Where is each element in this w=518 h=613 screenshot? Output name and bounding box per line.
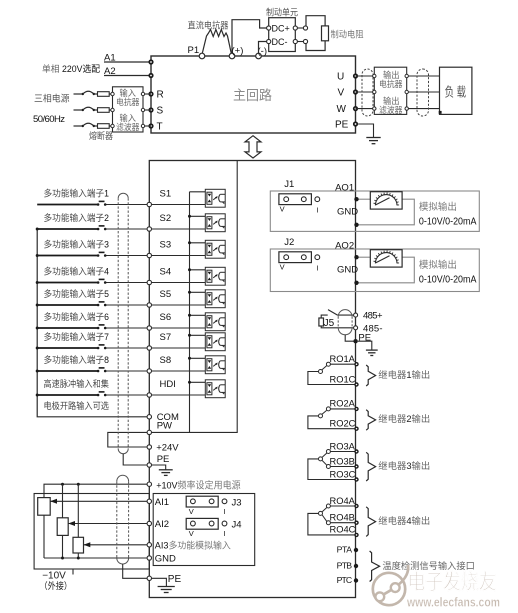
switch SW4 (97, 281, 100, 284)
jumper J4 (186, 518, 218, 529)
svg-text:50/60Hz: 50/60Hz (33, 114, 65, 125)
terminal S6 (147, 326, 151, 330)
relay RO3 common wire (308, 459, 357, 480)
junction on common bus row 2 (36, 228, 39, 231)
wire A2 (104, 75, 151, 77)
wire AO to meter and GND loop (357, 198, 371, 200)
svg-text:PTC: PTC (337, 575, 353, 585)
svg-text:0-10V/0-20mA: 0-10V/0-20mA (419, 275, 477, 286)
wire AI2 with wiper arrow (68, 523, 147, 525)
svg-text:V: V (189, 507, 194, 516)
svg-text:模拟输出: 模拟输出 (419, 201, 457, 213)
terminal RO4C (354, 533, 358, 537)
terminal S7 (147, 346, 151, 350)
optocoupler U3 (205, 240, 225, 258)
bus branch to opto 4 (190, 269, 208, 271)
svg-text:A1: A1 (104, 53, 116, 64)
switch SW3 (97, 254, 100, 257)
shield oval 485 (338, 310, 352, 335)
ground bottom PE (158, 587, 175, 593)
svg-text:继电器2输出: 继电器2输出 (378, 413, 430, 424)
svg-text:GND: GND (337, 265, 358, 276)
svg-text:RO1C: RO1C (330, 374, 356, 384)
wire (-) to DC- (259, 42, 267, 54)
wire S8 to optocoupler (152, 370, 208, 372)
svg-text:多功能输入端子3: 多功能输入端子3 (44, 239, 110, 250)
junction on common bus row 3 (36, 254, 39, 257)
jumper J3 (186, 496, 218, 507)
svg-text:PE: PE (168, 574, 182, 585)
svg-text:HDI: HDI (160, 379, 176, 390)
terminal R (148, 91, 153, 96)
ground control PE (159, 470, 173, 476)
svg-text:R: R (157, 90, 164, 101)
svg-text:S8: S8 (160, 355, 172, 366)
svg-text:熔断器: 熔断器 (89, 130, 114, 141)
bus branch to opto 8 (190, 357, 208, 359)
junction on common bus row 9 (36, 394, 39, 397)
svg-text:V: V (338, 88, 345, 99)
GND bus wire (44, 557, 147, 559)
wire AI1 with wiper arrow (50, 500, 147, 502)
svg-text:T: T (157, 122, 163, 133)
svg-text:AO1: AO1 (335, 182, 354, 193)
node load corner (439, 111, 442, 114)
junction on common bus row 6 (36, 327, 39, 330)
coupling double arrow (245, 136, 261, 158)
terminal A1 (148, 59, 153, 64)
svg-text:RO1A: RO1A (330, 354, 356, 364)
terminal S2 (147, 227, 151, 231)
node PE 485 (353, 339, 357, 343)
switch SW8 (97, 370, 100, 373)
wire S4 to optocoupler (152, 282, 208, 284)
svg-text:PW: PW (157, 421, 172, 432)
svg-text:0-10V/0-20mA: 0-10V/0-20mA (419, 217, 477, 228)
svg-text:J5: J5 (324, 318, 335, 329)
svg-text:负 载: 负 载 (445, 85, 467, 100)
svg-text:J3: J3 (232, 497, 242, 508)
phase line S with breaker and fuse F2 (74, 107, 113, 112)
terminal RO4B (354, 521, 358, 525)
wire V to load (356, 91, 440, 93)
terminal W (353, 106, 358, 111)
svg-text:W: W (337, 104, 347, 115)
relay RO4 common wire (308, 513, 357, 535)
485 shield drain to PE (345, 335, 355, 342)
terminal PE control (147, 463, 151, 467)
svg-text:485+: 485+ (363, 311, 383, 322)
svg-text:多功能输入端子5: 多功能输入端子5 (44, 288, 110, 299)
wire A1 (104, 61, 151, 63)
svg-text:多功能输入端子7: 多功能输入端子7 (44, 331, 110, 342)
svg-text:多功能输入端子4: 多功能输入端子4 (44, 266, 110, 277)
svg-text:AI3多功能模拟输入: AI3多功能模拟输入 (155, 540, 231, 552)
terminal RO4A (354, 504, 358, 508)
svg-text:S6: S6 (160, 312, 172, 323)
wire HDI to optocoupler (152, 394, 208, 396)
svg-text:V: V (189, 529, 194, 538)
svg-text:S7: S7 (160, 332, 172, 343)
terminal RO1A (354, 362, 358, 366)
wire switch segment S1 (37, 204, 98, 206)
svg-text:DC+: DC+ (272, 24, 290, 34)
terminal S8 (147, 369, 151, 373)
svg-text:I: I (316, 205, 318, 214)
output box pins (373, 74, 376, 77)
svg-text:S3: S3 (160, 239, 172, 250)
wire S5 to optocoupler (152, 304, 208, 306)
terminal +24V (147, 445, 151, 449)
bus branch to opto 3 (190, 242, 208, 244)
svg-text:（外接）: （外接） (40, 580, 73, 591)
pin DC- (267, 39, 271, 43)
node AO1 (354, 197, 358, 201)
terminal RO3A (354, 449, 358, 453)
svg-text:单相 220V选配: 单相 220V选配 (42, 63, 100, 74)
svg-text:RO4B: RO4B (330, 513, 355, 523)
shield oval digital inputs (118, 193, 128, 454)
wire S2 to optocoupler (152, 228, 208, 230)
terminal 485- (354, 326, 358, 330)
terminal S (148, 107, 153, 112)
control box (149, 161, 355, 598)
terminal RO2C (354, 427, 358, 431)
digital input inner box (150, 161, 237, 432)
analog output box AO1 (270, 191, 479, 231)
wire PE to ground (152, 465, 166, 470)
wire W to load (356, 108, 440, 110)
terminal PE bottom (147, 576, 151, 580)
svg-text:GND: GND (155, 554, 176, 565)
watermark logo elecfans (373, 565, 408, 605)
wire switch segment S7 (37, 347, 98, 349)
svg-text:I: I (224, 507, 226, 516)
relay RO4 contacts (330, 505, 356, 507)
wire (+) to DC+ (232, 20, 267, 54)
svg-text:V: V (280, 263, 285, 272)
terminal RO2A (354, 407, 358, 411)
svg-text:PE: PE (335, 120, 349, 131)
svg-text:AI2: AI2 (155, 519, 169, 530)
svg-text:RO2A: RO2A (330, 399, 356, 409)
jumper J2 (279, 252, 312, 263)
relay RO3 contacts (330, 451, 356, 453)
optocoupler U2 (205, 214, 225, 232)
potentiometer outer box (34, 494, 149, 570)
shielded cable oval output 1 (362, 69, 373, 116)
svg-text:RO4C: RO4C (330, 525, 356, 535)
svg-text:PTB: PTB (337, 561, 353, 571)
terminal GND (147, 556, 151, 560)
svg-text:−10V: −10V (42, 571, 66, 582)
node GND AO2 (354, 281, 358, 285)
svg-text:RO3C: RO3C (330, 469, 356, 479)
svg-text:RO4A: RO4A (330, 496, 356, 506)
wire loop to braking resistor (306, 16, 325, 26)
terminal 485+ (354, 313, 358, 317)
switch J5 blade (328, 310, 338, 316)
terminal S4 (147, 280, 151, 284)
-10V stub (72, 569, 74, 575)
svg-text:RO2C: RO2C (330, 419, 356, 429)
svg-text:电抗器: 电抗器 (379, 78, 403, 89)
terminal RO3C (354, 477, 358, 481)
analog shield drain to PE (123, 564, 147, 578)
shield drain to PE (123, 454, 147, 465)
node GND AO1 (354, 223, 358, 227)
switch SW1 (97, 203, 100, 206)
analog output box AO2 (270, 249, 479, 292)
digital common bus (37, 229, 149, 417)
wire U to load (356, 75, 440, 77)
terminal +10V (147, 482, 151, 486)
shielded cable oval output 2 (417, 69, 429, 116)
opto anode bus (189, 192, 191, 433)
svg-text:PTA: PTA (337, 545, 353, 555)
wire switch segment S8 (37, 370, 98, 372)
svg-text:J1: J1 (284, 179, 294, 190)
svg-text:AI1: AI1 (155, 497, 169, 508)
optocoupler U6 (205, 313, 225, 331)
svg-text:J4: J4 (232, 520, 242, 531)
svg-text:A2: A2 (104, 66, 116, 77)
RP1 bottom riser (43, 515, 45, 558)
relay RO2 common wire (308, 416, 357, 429)
terminating resistor J5 (319, 318, 324, 326)
braking resistor R-BR (322, 26, 329, 41)
terminal COM (147, 415, 151, 419)
svg-text:J2: J2 (284, 237, 294, 248)
optocoupler U9 (205, 380, 225, 398)
wire switch segment S6 (37, 327, 98, 329)
svg-text:S1: S1 (160, 188, 172, 199)
wire switch segment S2 (37, 228, 98, 230)
meter M2 (370, 250, 402, 267)
switch SW9 (97, 394, 100, 397)
terminal P1 (199, 53, 205, 59)
svg-text:多功能输入端子1: 多功能输入端子1 (44, 188, 110, 199)
terminal AI2 (147, 521, 151, 525)
wire S3 to optocoupler (152, 255, 208, 257)
pin DC+ (267, 26, 271, 30)
switch SW6 (97, 327, 100, 330)
svg-text:继电器4输出: 继电器4输出 (378, 515, 430, 526)
terminal S3 (147, 253, 151, 257)
filter box pins left (111, 92, 114, 95)
terminal PTA (354, 548, 358, 552)
svg-text:U: U (337, 72, 344, 83)
connector wires to resistor plug (297, 27, 303, 29)
brace relay RO2 (366, 410, 375, 431)
wire AO to meter and GND loop (357, 256, 371, 258)
svg-text:I: I (224, 529, 226, 538)
bus branch to opto 2 (190, 215, 208, 217)
svg-text:I: I (316, 263, 318, 272)
svg-text:S: S (157, 106, 164, 117)
junction on common bus row 8 (36, 370, 39, 373)
svg-text:继电器1输出: 继电器1输出 (378, 369, 430, 380)
svg-text:高速脉冲输入和集: 高速脉冲输入和集 (44, 378, 110, 389)
wire PE to ground (152, 578, 167, 586)
meter M1 (370, 192, 402, 209)
wire S1 to optocoupler (152, 204, 208, 206)
optocoupler U8 (205, 356, 225, 374)
svg-text:滤波器: 滤波器 (116, 121, 140, 132)
svg-text:主回路: 主回路 (233, 88, 272, 103)
terminal T (148, 123, 153, 128)
+10V feed wire (44, 484, 147, 497)
svg-text:(+): (+) (232, 46, 244, 57)
analog input inner box (153, 494, 255, 566)
wire PE to ground (358, 124, 373, 138)
terminal A2 (148, 73, 153, 78)
potentiometer RP2 (62, 484, 64, 518)
terminal S5 (147, 303, 151, 307)
terminal (+) (229, 53, 235, 59)
relay RO2 contacts (330, 408, 356, 410)
bus branch to opto 9 (190, 381, 208, 383)
bus branch to opto 1 (190, 191, 208, 193)
wire switch segment S5 (37, 304, 98, 306)
junction on common bus row 7 (36, 347, 39, 350)
wire S6 to optocoupler (152, 327, 208, 329)
terminal PTB (354, 564, 358, 568)
svg-text:制动单元: 制动单元 (266, 7, 298, 18)
switch SW2 (97, 228, 100, 231)
relay RO1 common wire (308, 372, 357, 385)
switch SW7 (97, 347, 100, 350)
svg-text:制动电阻: 制动电阻 (331, 29, 364, 40)
ground (output PE) (366, 138, 380, 144)
svg-text:P1: P1 (188, 45, 200, 56)
svg-text:S2: S2 (160, 213, 172, 224)
wire switch segment S4 (37, 282, 98, 284)
svg-text:V: V (280, 205, 285, 214)
svg-text:模拟输出: 模拟输出 (419, 259, 457, 271)
output reactor/filter box (374, 67, 406, 114)
svg-text:www.elecfans.com: www.elecfans.com (406, 595, 500, 610)
terminal PW (147, 430, 151, 434)
terminal PTC (354, 578, 358, 582)
braking unit box (269, 18, 296, 52)
terminal V (353, 89, 358, 94)
wire 485+ (338, 314, 356, 316)
svg-text:多功能输入端子2: 多功能输入端子2 (44, 212, 110, 223)
svg-text:电抗器: 电抗器 (116, 96, 140, 107)
svg-text:电子发烧友: 电子发烧友 (408, 570, 497, 594)
svg-text:直流电抗器: 直流电抗器 (188, 20, 230, 31)
optocoupler U1 (205, 189, 225, 207)
svg-text:AO2: AO2 (335, 240, 354, 251)
wire PE to ground (358, 341, 372, 350)
terminal S1 (147, 202, 151, 206)
svg-text:三相电源: 三相电源 (34, 93, 70, 104)
DC reactor L1 zigzag (202, 30, 232, 55)
bus branch to opto 7 (190, 334, 208, 336)
wire switch segment HDI (37, 394, 98, 396)
optocoupler U4 (205, 267, 225, 285)
svg-text:电极开路输入可选: 电极开路输入可选 (44, 400, 110, 411)
svg-text:GND: GND (337, 207, 358, 218)
potentiometer RP3 (77, 484, 79, 537)
input reactor/filter box (113, 87, 144, 132)
svg-text:+10V频率设定用电源: +10V频率设定用电源 (156, 479, 241, 491)
relay RO1 contacts (330, 363, 356, 365)
node AO2 (354, 255, 358, 259)
junction on common bus row 5 (36, 304, 39, 307)
svg-text:滤波器: 滤波器 (379, 104, 403, 115)
svg-text:继电器3输出: 继电器3输出 (378, 460, 430, 471)
bus branch to opto 6 (190, 314, 208, 316)
jumper J1 (279, 194, 312, 205)
bus branch to opto 5 (190, 291, 208, 293)
brace relay RO3 (366, 452, 375, 481)
terminal HDI (147, 393, 151, 397)
terminal AI1 (147, 499, 151, 503)
terminal PE main (353, 121, 358, 126)
main circuit box 主回路 (151, 56, 356, 133)
ground 485 PE (366, 350, 378, 355)
svg-text:S5: S5 (160, 289, 172, 300)
wire S7 to optocoupler (152, 347, 208, 349)
shield oval analog (117, 475, 129, 564)
svg-text:RO3B: RO3B (330, 456, 355, 466)
brace relay RO4 (366, 507, 375, 537)
svg-text:PE: PE (157, 454, 170, 465)
terminal U (353, 73, 358, 78)
brace PT (370, 551, 380, 582)
jumper wire PW to +24V (108, 432, 147, 447)
filter box pins right (143, 93, 151, 95)
phase line T with breaker and fuse F3 (74, 123, 113, 128)
switch SW5 (97, 304, 100, 307)
svg-text:DC-: DC- (272, 37, 288, 47)
terminal RO3B (354, 464, 358, 468)
svg-text:多功能输入端子6: 多功能输入端子6 (44, 311, 110, 322)
brace relay RO1 (366, 365, 375, 386)
terminal AI3 (147, 543, 151, 547)
terminal (-) (256, 53, 262, 59)
wire AI3 with wiper arrow (84, 544, 148, 546)
junction on common bus row 4 (36, 281, 39, 284)
terminal RO1C (354, 382, 358, 386)
load box 负载 (440, 67, 472, 114)
svg-text:+24V: +24V (156, 442, 179, 453)
phase line R with breaker and fuse F1 (74, 91, 113, 96)
optocoupler U7 (205, 333, 225, 351)
wire switch segment S3 (37, 255, 98, 257)
wire 485- (321, 326, 355, 328)
svg-text:RO3A: RO3A (330, 441, 356, 451)
svg-text:温度检测信号输入接口: 温度检测信号输入接口 (382, 560, 475, 571)
brake box right pins (293, 26, 297, 30)
svg-text:S4: S4 (160, 266, 172, 277)
svg-text:多功能输入端子8: 多功能输入端子8 (44, 354, 110, 365)
potentiometer RP1 (38, 498, 51, 516)
optocoupler U5 (205, 290, 225, 308)
